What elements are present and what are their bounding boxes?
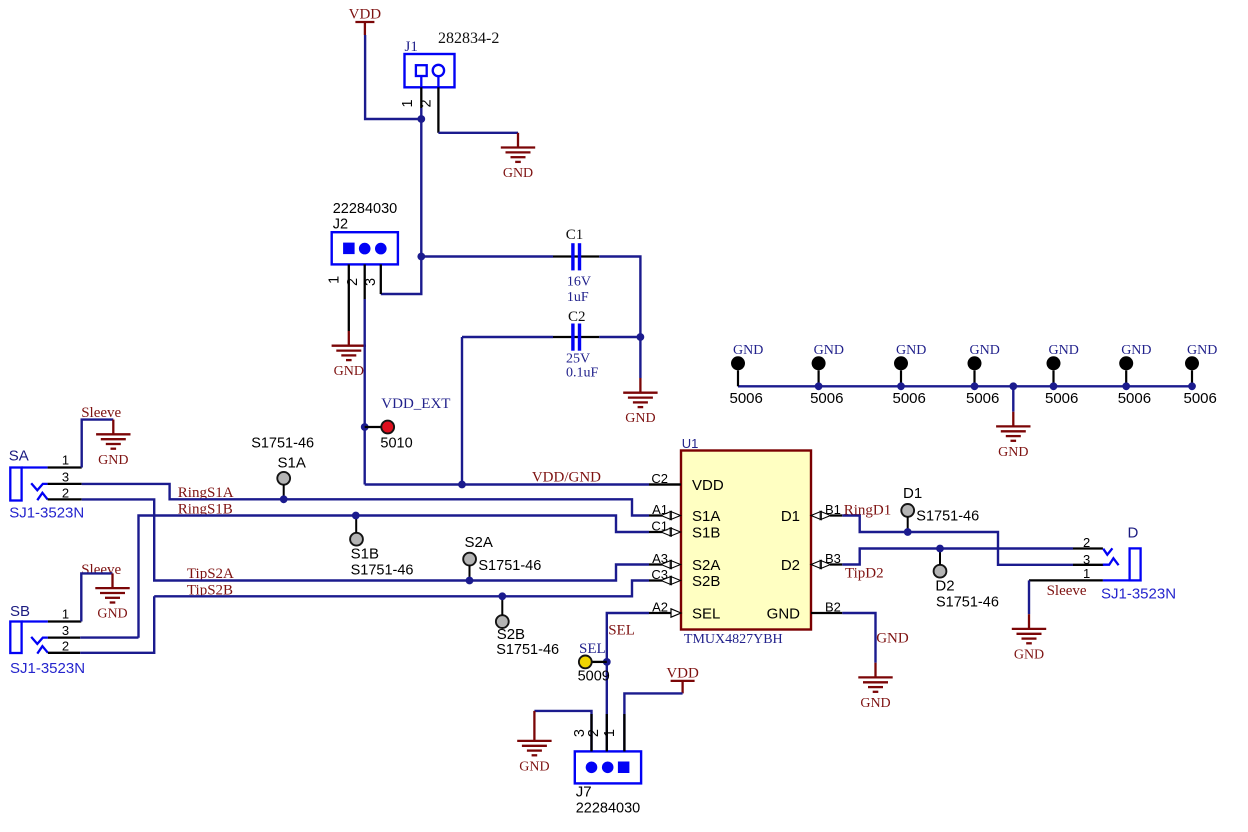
test point 5006 #2 (GND) <box>817 370 819 386</box>
svg-text:GND: GND <box>1121 343 1151 358</box>
J1 pin 2 (round pad) <box>433 65 444 76</box>
junction S2B <box>498 592 506 600</box>
SA pin 1 (tip) <box>22 466 48 468</box>
D pin 2 contact <box>1073 547 1103 549</box>
ground GND (rail) <box>996 412 1030 441</box>
svg-text:S2B: S2B <box>497 626 525 643</box>
svg-text:C2: C2 <box>568 309 586 325</box>
svg-text:Sleeve: Sleeve <box>1047 583 1087 599</box>
svg-text:U1: U1 <box>682 436 699 451</box>
SB pin 2 contact <box>37 646 48 653</box>
power VDD (top) <box>355 22 374 35</box>
svg-text:A2: A2 <box>652 600 668 615</box>
svg-text:GND: GND <box>970 343 1000 358</box>
test point S2B <box>496 615 509 628</box>
svg-text:VDD_EXT: VDD_EXT <box>381 396 450 412</box>
svg-text:2: 2 <box>1083 535 1090 550</box>
svg-text:GND: GND <box>814 343 844 358</box>
connector J1 <box>405 54 455 87</box>
junction rail <box>971 382 979 390</box>
power VDD (J7) <box>671 681 695 694</box>
wire J2 pin2 stub <box>364 264 366 299</box>
junction C2/VDDGND <box>458 481 466 489</box>
junction C1 tap <box>417 253 425 261</box>
wire J1 pin1 down to J2 pin3 <box>381 108 422 294</box>
svg-text:D: D <box>1128 525 1139 542</box>
svg-text:S1A: S1A <box>278 454 306 471</box>
svg-text:22284030: 22284030 <box>333 201 398 217</box>
junction D1 <box>904 528 912 536</box>
junction S1B <box>352 512 360 520</box>
svg-text:B3: B3 <box>825 551 841 566</box>
wire D sleeve to GND <box>1028 580 1030 614</box>
svg-text:SA: SA <box>9 448 29 465</box>
svg-text:TipD2: TipD2 <box>845 565 884 581</box>
wire VDD to J7 pin1 <box>624 693 682 751</box>
svg-text:C1: C1 <box>566 227 584 243</box>
wire C1 right to GND rail corner <box>599 257 640 338</box>
svg-text:GND: GND <box>625 411 655 426</box>
wire RingS1A <box>82 484 649 516</box>
svg-text:25V: 25V <box>566 351 590 366</box>
svg-text:3: 3 <box>1083 552 1090 567</box>
svg-text:B2: B2 <box>825 600 841 615</box>
svg-text:VDD/GND: VDD/GND <box>532 469 601 485</box>
svg-text:S1751-46: S1751-46 <box>251 435 314 451</box>
svg-text:VDD: VDD <box>349 7 382 23</box>
J7 pin 1 (square pad) <box>618 762 630 774</box>
svg-text:5006: 5006 <box>893 390 926 407</box>
junction S2A <box>466 577 474 585</box>
junction rail mid <box>1009 382 1017 390</box>
wire J1 pin2 stub <box>437 87 439 133</box>
wire C2 down to VDD/GND net <box>461 337 463 485</box>
wire to C1 left lead <box>421 255 553 257</box>
svg-text:S1751-46: S1751-46 <box>916 509 979 525</box>
svg-text:S2A: S2A <box>692 557 720 574</box>
ground GND (D sleeve) <box>1012 614 1046 643</box>
wire C2 left lead <box>462 336 553 338</box>
test point 5006 #4 (GND) <box>973 370 975 386</box>
wire C2 to GND <box>639 337 641 378</box>
wire J1 pin1 stub <box>420 87 422 108</box>
svg-text:RingD1: RingD1 <box>844 502 892 518</box>
test point 5006 #3 (GND) <box>900 370 902 386</box>
svg-text:GND: GND <box>860 696 890 711</box>
svg-text:5006: 5006 <box>1118 390 1151 407</box>
ground GND (SB sleeve) <box>95 573 129 602</box>
U1 pin A1 (S1A) <box>649 514 662 516</box>
wire J7 pin3 to GND <box>534 711 591 752</box>
svg-text:VDD: VDD <box>666 665 699 681</box>
svg-text:A1: A1 <box>652 502 668 517</box>
svg-text:TMUX4827YBH: TMUX4827YBH <box>684 632 783 647</box>
svg-text:J2: J2 <box>333 217 348 233</box>
J1 pin 1 (square pad) <box>416 65 427 76</box>
U1 pin C3 (S2B) <box>649 579 662 581</box>
svg-text:1: 1 <box>62 453 69 468</box>
svg-text:S2A: S2A <box>465 534 493 551</box>
svg-text:3: 3 <box>62 469 69 484</box>
svg-text:2: 2 <box>586 729 602 737</box>
svg-text:D1: D1 <box>781 508 800 525</box>
test point 5006 #5 (GND) <box>1052 370 1054 386</box>
J2 pin 2 (round pad) <box>359 243 371 255</box>
wire J2 pin2 down to VDD/GND rail <box>364 299 366 485</box>
svg-text:5006: 5006 <box>1184 390 1217 407</box>
wire TipS2B <box>154 581 649 597</box>
svg-text:SEL: SEL <box>692 605 720 622</box>
svg-text:VDD: VDD <box>692 477 724 494</box>
wire J1 pin2 to GND <box>438 132 518 134</box>
SB pin 1 (tip) <box>22 620 48 622</box>
SB pin 3 contact <box>31 637 48 644</box>
junction SEL <box>603 658 611 666</box>
svg-text:GND: GND <box>98 453 128 468</box>
ground GND (C1/C2) <box>623 378 657 407</box>
D pin 1 (tip) <box>1029 579 1103 581</box>
svg-text:2: 2 <box>62 485 69 500</box>
ground GND (B2) <box>858 663 892 692</box>
svg-text:SB: SB <box>10 603 30 620</box>
svg-text:GND: GND <box>1187 343 1217 358</box>
wire VDD to J1 pin1 junction <box>365 35 421 119</box>
junction S1A <box>280 495 288 503</box>
junction rail <box>897 382 905 390</box>
connector J2 <box>332 232 398 264</box>
J7 pin 2 (round pad) <box>602 762 614 774</box>
IC U1 TMUX4827YBH <box>681 451 811 630</box>
U1 pin B2 (GND) <box>811 612 842 614</box>
wire SA sleeve to GND <box>82 420 114 468</box>
svg-text:GND: GND <box>1014 647 1044 662</box>
J2 pin 3 (round pad) <box>375 243 387 255</box>
junction D2 <box>936 545 944 553</box>
wire SEL net <box>607 613 649 751</box>
SA pin 3 contact <box>31 483 47 490</box>
junction C1/C2 <box>637 333 645 341</box>
svg-text:GND: GND <box>876 630 909 646</box>
svg-text:D1: D1 <box>903 485 922 502</box>
wire rail to GND <box>1012 386 1014 411</box>
junction J1/VDD <box>417 115 425 123</box>
ground GND (J2 pin1) <box>332 331 366 360</box>
J7 pin 3 (round pad) <box>586 762 598 774</box>
J2 pin 1 (square pad) <box>343 243 355 255</box>
svg-text:S2B: S2B <box>692 573 720 590</box>
svg-text:GND: GND <box>767 605 801 622</box>
svg-text:J7: J7 <box>576 783 592 800</box>
svg-text:1: 1 <box>602 729 618 737</box>
svg-text:D2: D2 <box>935 577 954 594</box>
svg-text:22284030: 22284030 <box>576 801 641 817</box>
test point S1B <box>350 533 363 546</box>
wire U1 GND (B2) to ground <box>842 613 875 663</box>
svg-text:1: 1 <box>1083 566 1090 581</box>
wire U1 VDD pin stub <box>649 483 681 485</box>
svg-text:SJ1-3523N: SJ1-3523N <box>10 660 85 677</box>
svg-text:GND: GND <box>998 445 1028 460</box>
svg-text:SJ1-3523N: SJ1-3523N <box>1101 586 1176 603</box>
svg-text:1: 1 <box>62 607 69 622</box>
svg-text:D2: D2 <box>781 557 800 574</box>
svg-text:16V: 16V <box>567 274 591 289</box>
ground GND (J1 pin2) <box>501 133 535 162</box>
svg-text:C3: C3 <box>651 567 668 582</box>
svg-text:5010: 5010 <box>380 435 412 451</box>
connector J7 <box>575 751 641 783</box>
wire SB sleeve to GND <box>81 573 112 621</box>
svg-text:1: 1 <box>400 99 416 107</box>
svg-text:5006: 5006 <box>810 390 843 407</box>
wire VDD/GND net <box>365 483 649 485</box>
svg-text:B1: B1 <box>825 502 841 517</box>
wire J2 pin3 stub <box>380 264 382 294</box>
svg-text:GND: GND <box>519 759 549 774</box>
D pin 3 contact <box>1073 564 1104 566</box>
svg-text:5006: 5006 <box>966 390 999 407</box>
svg-text:S1A: S1A <box>692 508 720 525</box>
svg-text:S1751-46: S1751-46 <box>478 558 541 574</box>
svg-text:A3: A3 <box>652 551 668 566</box>
U1 pin C1 (S1B) <box>649 531 662 533</box>
svg-text:2: 2 <box>345 278 361 286</box>
svg-text:C2: C2 <box>651 471 668 486</box>
SA pin 2 contact <box>37 493 47 500</box>
wire J2 pin1 stub <box>348 264 350 331</box>
svg-text:S1751-46: S1751-46 <box>936 595 999 611</box>
svg-text:GND: GND <box>1049 343 1079 358</box>
test point 5006 #1 (GND) <box>737 370 739 386</box>
svg-text:2: 2 <box>62 639 69 654</box>
svg-text:0.1uF: 0.1uF <box>566 365 599 380</box>
svg-text:1: 1 <box>327 276 343 284</box>
svg-text:5006: 5006 <box>1045 390 1078 407</box>
test point 5006 #7 (GND) <box>1191 370 1193 386</box>
junction rail <box>1188 382 1196 390</box>
ground GND (SA sleeve) <box>96 420 130 449</box>
wire D1 net <box>842 516 1073 565</box>
svg-text:Sleeve: Sleeve <box>81 562 121 578</box>
J7 pin stubs <box>590 714 592 751</box>
wire TipS2A <box>82 499 649 580</box>
U1 pin A2 (SEL) <box>649 612 672 614</box>
junction rail <box>1050 382 1058 390</box>
svg-text:3: 3 <box>62 623 69 638</box>
svg-text:GND: GND <box>503 166 533 181</box>
U1 pin B1 (D1) <box>830 514 842 516</box>
U1 pin A3 (S2A) <box>649 563 662 565</box>
test point 5006 #6 (GND) <box>1125 370 1127 386</box>
svg-text:GND: GND <box>896 343 926 358</box>
junction rail <box>815 382 823 390</box>
svg-text:GND: GND <box>334 364 364 379</box>
svg-text:GND: GND <box>97 607 127 622</box>
svg-text:5006: 5006 <box>730 390 763 407</box>
test point D2 <box>934 565 947 578</box>
U1 pin C2 (VDD) <box>649 483 681 485</box>
svg-text:S1B: S1B <box>692 524 720 541</box>
svg-text:1uF: 1uF <box>567 290 589 305</box>
U1 pin B3 (D2) <box>830 563 842 565</box>
junction rail <box>1122 382 1130 390</box>
ground GND (J7) <box>517 711 551 755</box>
junction VDD_EXT <box>361 423 369 431</box>
svg-text:GND: GND <box>733 343 763 358</box>
svg-text:282834-2: 282834-2 <box>438 30 499 47</box>
svg-text:SEL: SEL <box>608 623 635 639</box>
wire SB pin3 to RingS1B <box>80 636 138 638</box>
svg-text:S1751-46: S1751-46 <box>351 562 414 578</box>
svg-text:S1751-46: S1751-46 <box>496 642 559 658</box>
wire RingS1B <box>139 516 650 638</box>
svg-text:SJ1-3523N: SJ1-3523N <box>9 504 84 521</box>
wire D2 net <box>842 549 1073 565</box>
svg-text:S1B: S1B <box>351 545 379 562</box>
svg-text:5009: 5009 <box>578 669 610 685</box>
svg-text:J1: J1 <box>405 39 418 55</box>
svg-text:SEL: SEL <box>579 641 606 657</box>
svg-text:C1: C1 <box>651 519 668 534</box>
wire GND rail <box>738 385 1192 387</box>
wire SB pin2 to TipS2B <box>80 596 154 653</box>
